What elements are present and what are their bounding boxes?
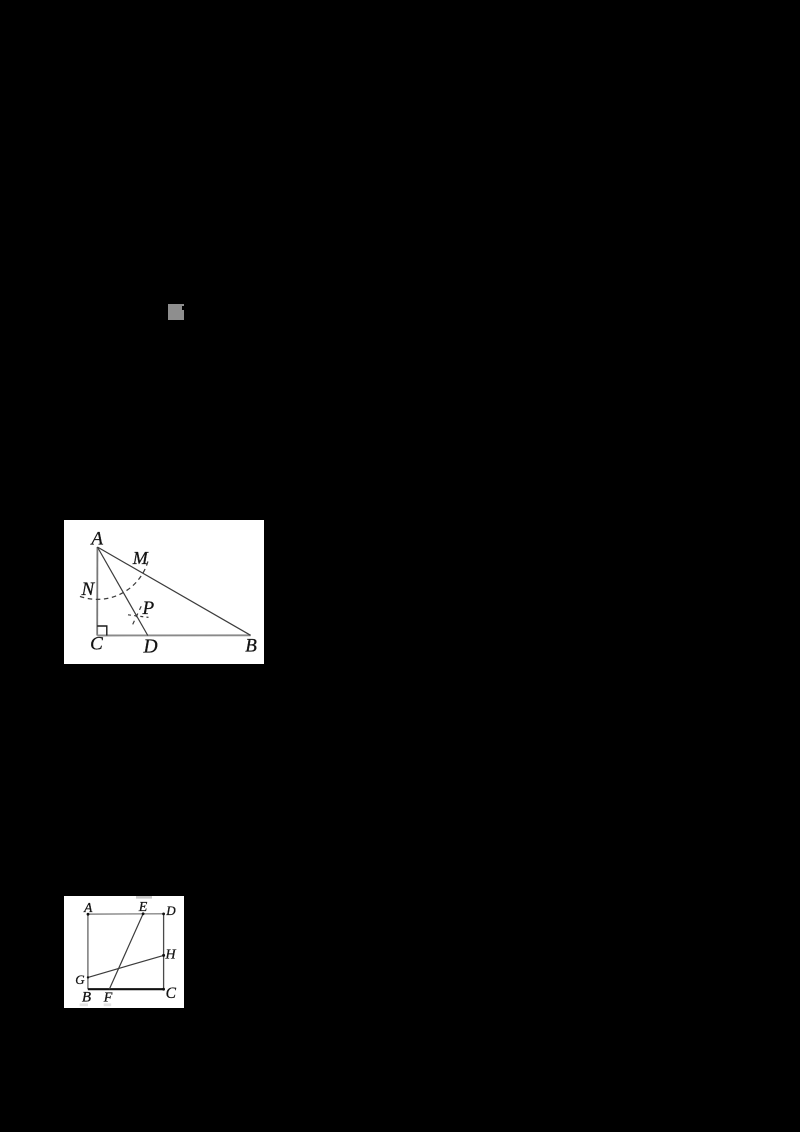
- svg-text:B: B: [245, 636, 257, 657]
- wire: side AB of square: [87, 914, 89, 989]
- wire: side AC of triangle: [96, 547, 98, 636]
- svg-text:A: A: [83, 900, 93, 915]
- svg-text:P: P: [141, 598, 154, 619]
- construction dashes crossing at P (shallow arc): [128, 615, 149, 618]
- svg-text:F: F: [103, 991, 113, 1006]
- wire: bisector AD: [97, 547, 147, 636]
- wire: side BC of square (bold): [88, 988, 164, 990]
- svg-text:N: N: [80, 579, 95, 600]
- wire: base CB of triangle: [97, 634, 250, 636]
- wire: hypotenuse AB: [97, 547, 250, 635]
- svg-text:D: D: [142, 636, 157, 657]
- node dot H: [162, 954, 165, 957]
- wire: side AD of square: [88, 913, 164, 915]
- svg-text:B: B: [82, 989, 91, 1005]
- dashed arc MN centered at A: [80, 561, 148, 599]
- figure 2 white panel: [64, 896, 184, 1008]
- node dot A: [87, 913, 90, 916]
- svg-text:A: A: [89, 529, 103, 550]
- svg-text:M: M: [132, 548, 149, 568]
- svg-text:H: H: [164, 948, 176, 963]
- faint smudge bottom left: [80, 1003, 88, 1006]
- small gray image placeholder square: [168, 304, 184, 321]
- notch in gray square: [182, 306, 184, 310]
- svg-text:C: C: [166, 985, 177, 1002]
- node dot E: [142, 912, 145, 915]
- faint cropped text smudge top: [136, 896, 152, 899]
- figure 1 white panel: [64, 520, 264, 664]
- wire: line GH: [88, 955, 164, 977]
- svg-text:E: E: [138, 900, 148, 915]
- node dot D: [162, 913, 165, 916]
- svg-text:C: C: [90, 634, 103, 655]
- right angle marker at C: [97, 626, 107, 636]
- node dot G: [87, 976, 89, 978]
- svg-text:D: D: [165, 903, 176, 918]
- wire: line EF: [109, 914, 143, 989]
- node dot C: [162, 988, 165, 991]
- faint smudge bottom mid: [104, 1003, 112, 1006]
- construction dashes crossing at P (steep arc): [132, 606, 141, 625]
- wire: side DC of square: [163, 914, 165, 989]
- svg-text:G: G: [75, 972, 85, 987]
